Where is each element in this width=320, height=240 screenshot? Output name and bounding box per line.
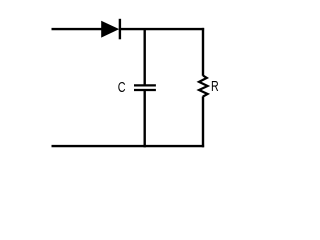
wire: bottom return segment <box>52 145 205 147</box>
resistor R zigzag <box>199 76 208 97</box>
svg-text:R: R <box>211 77 219 94</box>
wire: right branch bottom lead <box>202 96 204 147</box>
capacitor C top plate <box>134 84 156 86</box>
wire: diode cathode to top-right corner <box>120 28 204 30</box>
wire: top input segment <box>52 28 103 30</box>
wire: capacitor bottom lead <box>143 90 145 147</box>
svg-text:C: C <box>118 78 126 95</box>
diode D1 cathode bar <box>119 19 121 40</box>
wire: right branch top lead <box>202 28 204 76</box>
diode D1 anode triangle <box>101 21 119 38</box>
wire: capacitor top lead <box>143 28 145 85</box>
capacitor C bottom plate <box>134 89 156 91</box>
